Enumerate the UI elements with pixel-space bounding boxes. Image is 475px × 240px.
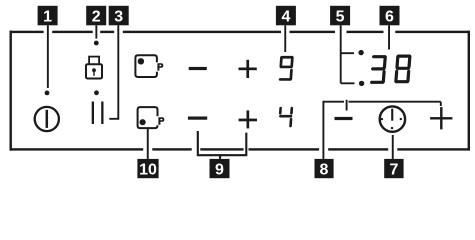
panel border right: [468, 31, 470, 151]
panel border bottom: [10, 148, 471, 150]
timer clock icon: [380, 106, 405, 131]
callout line 6: [388, 25, 390, 49]
callout line 3 (elbow to pause icon): [109, 25, 118, 119]
svg-text:10: 10: [139, 161, 157, 178]
timer colon dot bottom: [359, 81, 364, 86]
callout label 3: [109, 6, 129, 26]
pause indicator dot: [94, 90, 99, 95]
callout label 4: [276, 6, 296, 26]
timer plus key: [430, 107, 452, 129]
svg-text:3: 3: [114, 8, 123, 25]
callout line 5 (bracket to colon dots): [341, 25, 355, 83]
callout line 10: [147, 128, 149, 159]
pause icon: [92, 102, 104, 125]
panel border left: [10, 31, 12, 151]
callout label 5: [330, 6, 350, 26]
svg-text:2: 2: [92, 8, 101, 25]
callout label 1: [38, 6, 58, 26]
svg-text:7: 7: [389, 161, 398, 178]
plus key (bottom hob row): [239, 110, 257, 128]
callout label 6: [380, 6, 400, 26]
callout label 8: [315, 159, 334, 179]
callout label 9: [210, 159, 230, 179]
callout line 1: [47, 25, 49, 88]
callout line 9 (bracket under hob minus and plus): [197, 131, 248, 159]
timer digit 8 (7-segment): [394, 55, 411, 84]
timer minus key: [335, 117, 353, 120]
power (main switch) icon: [35, 107, 59, 131]
svg-text:1: 1: [43, 8, 52, 25]
svg-text:9: 9: [215, 161, 224, 178]
power level digit 9 (7-segment): [278, 56, 293, 81]
pot detection icon (top hob): [135, 55, 163, 77]
main switch sensor dot: [45, 91, 50, 96]
plus key (top hob row): [239, 60, 257, 78]
callout label 10: [137, 159, 158, 179]
svg-text:8: 8: [320, 161, 329, 178]
svg-text:6: 6: [385, 8, 394, 25]
callout line 8 (bracket over timer minus and plus): [323, 100, 440, 159]
power level digit 4 (7-segment): [278, 107, 293, 128]
callout line 2: [95, 25, 97, 38]
key lock (padlock) icon: [86, 57, 102, 79]
minus key (bottom hob row): [188, 117, 207, 120]
minus key (top hob row): [189, 67, 207, 70]
key lock indicator dot (top): [94, 41, 99, 46]
pot detection icon (bottom hob): [138, 107, 165, 128]
callout label 2: [86, 6, 106, 26]
timer colon dot top: [358, 50, 363, 55]
panel border top: [10, 31, 471, 33]
svg-text:5: 5: [336, 8, 345, 25]
svg-text:4: 4: [281, 8, 290, 25]
timer digit 3 (7-segment): [370, 55, 387, 84]
callout line 7 (clock to label): [392, 135, 394, 159]
callout line 4: [284, 25, 286, 52]
callout label 7: [384, 159, 403, 179]
